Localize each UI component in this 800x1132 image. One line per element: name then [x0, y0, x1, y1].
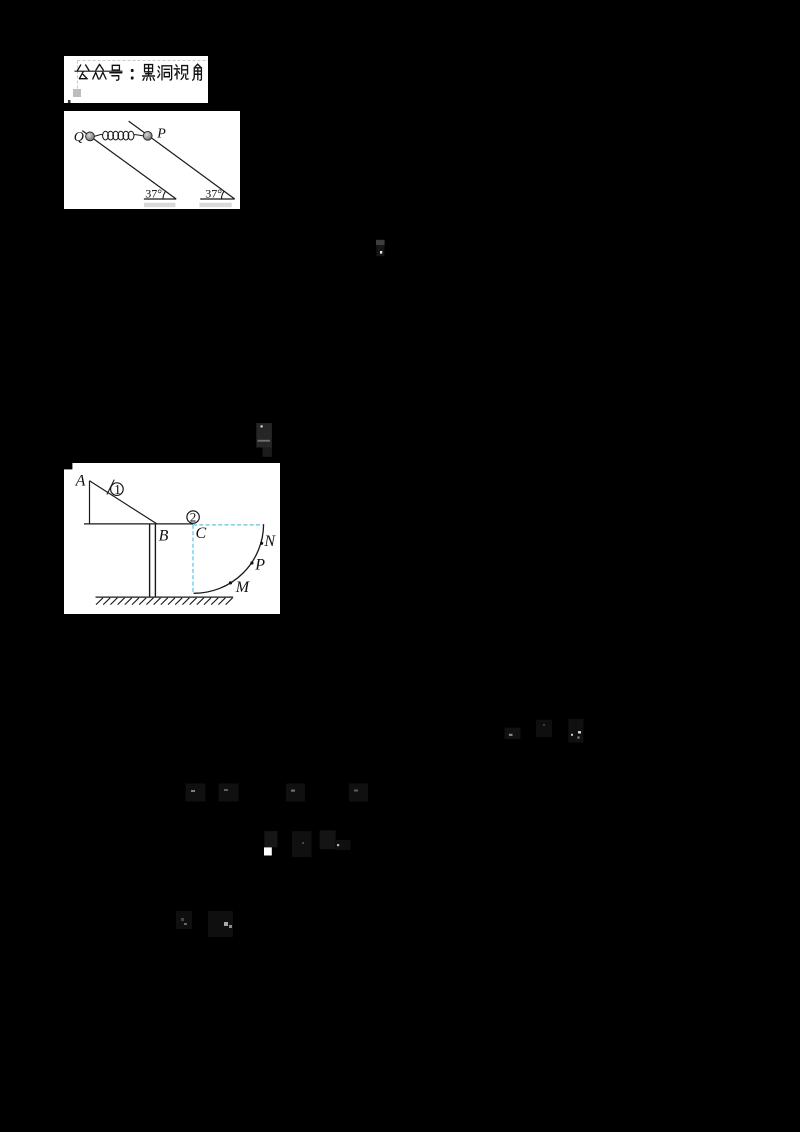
svg-text:A: A	[75, 472, 86, 489]
dashed cyan horizontal line	[193, 524, 264, 526]
glyph 黑	[143, 65, 155, 81]
faint fragment 2	[255, 422, 273, 458]
point P dot	[250, 561, 253, 564]
dashed cyan vertical line	[192, 525, 194, 593]
selection frame dashed top edge	[78, 60, 209, 62]
svg-text:P: P	[156, 126, 166, 141]
text box: 公众号：黑洞视角	[64, 56, 208, 103]
svg-text:N: N	[263, 533, 276, 550]
svg-text:37°: 37°	[205, 187, 222, 201]
svg-text:37°: 37°	[145, 187, 162, 201]
left ground grey bar	[144, 203, 176, 208]
svg-text:P: P	[254, 557, 265, 574]
glyph 角	[193, 64, 202, 80]
svg-text:2: 2	[190, 510, 197, 525]
glyph ：	[131, 69, 134, 80]
faint fragments row y=915	[172, 906, 242, 942]
incline left vertical side	[89, 481, 91, 524]
left incline line	[82, 131, 176, 199]
black notch top-left	[64, 463, 72, 469]
table post right line	[154, 524, 156, 597]
table post left line	[149, 524, 151, 597]
ball 2 circled	[187, 511, 199, 523]
faint fragments row y=830 with white square	[258, 826, 353, 860]
svg-text:C: C	[196, 525, 207, 542]
svg-text:1: 1	[114, 483, 121, 498]
right baseline	[200, 198, 235, 200]
quarter-circle trajectory arc	[194, 524, 264, 593]
incline hypotenuse	[90, 481, 157, 524]
point M dot	[229, 581, 232, 584]
left angle arc	[163, 191, 166, 199]
small mark bottom-left	[68, 100, 71, 103]
right ground grey bar	[199, 203, 231, 208]
right angle arc	[221, 191, 224, 199]
faint fragment 1	[375, 239, 387, 259]
selection frame dashed left edge	[77, 61, 79, 93]
strikethrough line	[75, 70, 123, 72]
svg-text:M: M	[235, 579, 251, 596]
selection handle square	[73, 89, 81, 97]
glyph 号	[110, 65, 122, 80]
ball P	[143, 131, 152, 140]
svg-text:Q: Q	[74, 130, 84, 145]
spring between balls	[94, 131, 143, 140]
glyph 公	[77, 65, 89, 79]
table top line	[84, 523, 193, 525]
glyph 众	[93, 64, 106, 79]
ball 1 circled	[111, 483, 124, 496]
glyph 视	[174, 65, 188, 80]
faint fragments row y=720	[500, 715, 590, 745]
ground hatching	[96, 598, 233, 605]
point N dot	[260, 542, 263, 545]
ball Q	[86, 132, 95, 141]
svg-text:B: B	[159, 527, 169, 544]
faint fragments row y=785	[180, 780, 375, 805]
ground line	[96, 596, 234, 598]
glyph 洞	[158, 66, 172, 80]
figure 1: two 37-degree inclines with spring-connected balls P and Q	[64, 111, 240, 209]
left baseline	[144, 198, 176, 200]
right incline line	[129, 121, 235, 199]
figure 2: incline on table with quarter-circle trajectory	[64, 463, 280, 614]
tick on incline	[107, 480, 114, 495]
